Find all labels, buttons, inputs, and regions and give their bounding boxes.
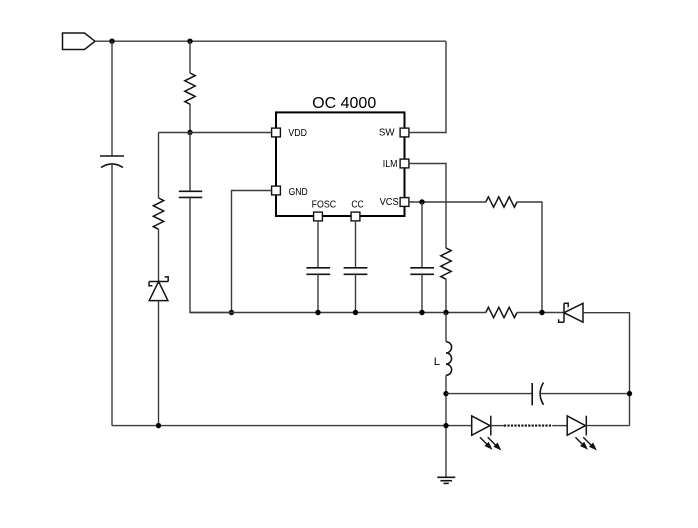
- wire: R1 bottom lead to VDD node: [189, 104, 191, 133]
- pin SW (square): [400, 128, 409, 137]
- wire: zener bottom lead to ground rail: [158, 301, 160, 426]
- node: VCS / C3 junction: [419, 199, 424, 204]
- diode D1 (freewheeling zener-style, points left): [559, 303, 583, 322]
- node: C6 / right rail junction: [627, 391, 632, 396]
- node: zener / bottom rail junction: [156, 423, 161, 428]
- wire: C2 bottom lead down and right to ground bus: [190, 197, 232, 312]
- wire: R3 bottom lead to bus: [445, 279, 447, 313]
- node: GND wire / ground bus junction: [229, 310, 234, 315]
- node: FOSC cap / bus: [315, 310, 320, 315]
- svg-text:SW: SW: [379, 127, 395, 139]
- svg-text:CC: CC: [351, 198, 364, 210]
- wire: GND pin to ground bus: [232, 191, 272, 313]
- pin ILM (square): [400, 159, 409, 168]
- wire: C3 top lead: [421, 202, 423, 268]
- resistor R1 (VIN to VDD): [185, 73, 195, 104]
- wire: C5 bottom lead: [355, 274, 357, 312]
- ground symbol: [437, 477, 455, 483]
- wire: LED D3 cathode to right rail: [586, 425, 629, 427]
- resistor R2 (zener bias): [153, 198, 163, 229]
- svg-text:L: L: [434, 356, 440, 368]
- inductor L: [446, 342, 452, 376]
- wire: R4 right lead down to bus node: [517, 202, 542, 313]
- resistor R3 (ILM set, vertical): [441, 248, 451, 279]
- node: CC cap / bus: [353, 310, 358, 315]
- wire: C4 bottom lead: [317, 274, 319, 312]
- wire: R1 top lead: [189, 41, 191, 73]
- svg-text:OC 4000: OC 4000: [312, 95, 376, 112]
- wire: top VIN rail: [95, 40, 446, 42]
- svg-text:FOSC: FOSC: [312, 198, 337, 210]
- capacitor C3 (VCS filter): [410, 268, 434, 275]
- wire: ILM pin right and down: [409, 164, 446, 249]
- pin GND (square): [272, 186, 281, 195]
- wire: inductor bottom lead down to ground: [445, 375, 447, 477]
- input connector (VIN tag): [63, 33, 96, 50]
- wire: C2 top lead: [189, 133, 191, 192]
- LED D3 arrows: [575, 437, 595, 449]
- wire: dotted LED string continuation: [504, 425, 552, 427]
- wire: CC pin to C5: [355, 221, 357, 268]
- wire: R5 to diode: [517, 312, 564, 314]
- svg-text:VDD: VDD: [288, 127, 307, 139]
- svg-text:ILM: ILM: [383, 158, 398, 170]
- wire: R2 top lead: [158, 133, 160, 199]
- wire: LED D2 cathode stub: [491, 425, 504, 427]
- wire: ground bus (horizontal): [190, 312, 486, 314]
- wire: VDD rail to pin: [159, 132, 272, 134]
- pin CC (square): [351, 212, 360, 221]
- wire: VCS pin to R4: [409, 201, 486, 203]
- resistor R4 (VCS filter, horizontal): [486, 197, 517, 207]
- pin VDD (square): [272, 128, 281, 137]
- wire: C1 bottom lead down to bottom rail: [111, 165, 113, 426]
- node: VIN / R1 junction: [187, 39, 192, 44]
- node: LED string / ground junction: [443, 423, 448, 428]
- LED D3: [567, 416, 586, 436]
- op-amp U1 (IC OC 4000 body): [276, 112, 405, 216]
- wire: C6 left lead: [446, 393, 532, 395]
- wire: SW pin up to VIN rail: [409, 41, 446, 132]
- wire: FOSC pin to C4: [317, 221, 319, 268]
- capacitor C5 (CC compensation): [344, 268, 368, 275]
- node: VDD node: [187, 130, 192, 135]
- node: inductor / C6 junction: [443, 391, 448, 396]
- wire: inductor top lead: [445, 313, 447, 342]
- node: R4/R5 junction: [539, 310, 544, 315]
- capacitor C1 (polarized, input bulk cap): [100, 156, 124, 168]
- capacitor C2 (VDD decoupling): [179, 191, 202, 197]
- wire: R2 bottom lead to zener: [158, 229, 160, 282]
- capacitor C4 (FOSC): [306, 268, 330, 275]
- wire: C1 top lead: [111, 41, 113, 156]
- node: R3-inductor / bus: [443, 310, 448, 315]
- pin FOSC (square): [314, 212, 323, 221]
- pin VCS (square): [400, 198, 409, 207]
- wire: bottom ground rail (left part): [112, 425, 472, 427]
- wire: LED D3 anode stub: [552, 425, 567, 427]
- resistor R5 (current sense, horizontal): [486, 307, 517, 317]
- node: C3 / bus: [419, 310, 424, 315]
- LED D2 arrows: [480, 437, 500, 449]
- svg-text:VCS: VCS: [380, 196, 399, 208]
- node: VIN / C1 junction: [109, 39, 114, 44]
- svg-text:GND: GND: [289, 186, 308, 198]
- capacitor C6 (output, polarized): [532, 383, 543, 406]
- LED D2: [472, 416, 491, 436]
- wire: D1 anode to right rail: [583, 313, 630, 426]
- zener diode Z1: [149, 277, 168, 301]
- wire: C3 bottom lead: [421, 274, 423, 312]
- wire: C6 right lead: [540, 393, 629, 395]
